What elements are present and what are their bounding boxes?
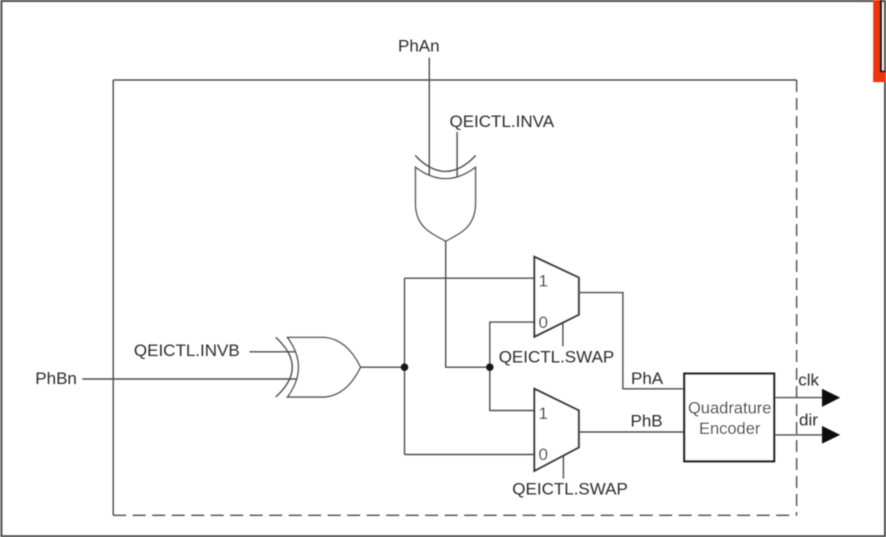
xor gate U1 (vertical, PhAn) body [416, 167, 476, 241]
arrowhead clk [822, 389, 840, 407]
junction node A dot [486, 363, 494, 371]
svg-text:Quadrature: Quadrature [688, 399, 771, 417]
black margin line next to red bar [880, 0, 886, 73]
xor gate U2 (horizontal, PhBn) extra input arc [276, 337, 293, 397]
xor gate U1 (vertical, PhAn) extra input arc [415, 156, 476, 172]
svg-text:dir: dir [799, 410, 818, 429]
svg-text:1: 1 [539, 404, 548, 423]
svg-text:QEICTL.SWAP: QEICTL.SWAP [512, 480, 628, 499]
wire U1 output down to node A elbow then right [446, 241, 490, 367]
wire node B down-branch to mux M2 input 0 [405, 454, 535, 456]
svg-text:QEICTL.INVA: QEICTL.INVA [450, 112, 555, 131]
wire QEICTL.INVB input [250, 351, 301, 353]
red change-bar annotation top-right [873, 0, 886, 82]
wire clk output [775, 397, 822, 399]
wire node A vertical branch with elbows to mux M1 input 0 and mux M2 input 1 [490, 322, 535, 410]
svg-text:PhAn: PhAn [398, 36, 440, 55]
junction node B dot [401, 363, 409, 371]
wire PhBn input (horizontal) [82, 378, 300, 380]
dashed module boundary box [113, 80, 796, 515]
mux M1 (upper) trapezoid [534, 257, 578, 337]
svg-text:PhBn: PhBn [35, 369, 77, 388]
svg-text:1: 1 [539, 272, 548, 291]
svg-text:QEICTL.SWAP: QEICTL.SWAP [499, 347, 615, 366]
wire mux M2 output PhB [579, 431, 684, 433]
svg-text:0: 0 [539, 445, 548, 464]
svg-text:PhB: PhB [631, 412, 663, 431]
svg-text:QEICTL.INVB: QEICTL.INVB [134, 341, 240, 360]
wire mux M1 select [562, 323, 564, 346]
wire PhAn input (vertical) [428, 58, 430, 178]
svg-text:PhA: PhA [631, 369, 664, 388]
wire dir output [775, 434, 822, 436]
arrowhead dir [822, 426, 840, 444]
xor gate U2 (horizontal, PhBn) body [288, 337, 361, 397]
wire mux M1 output to PhA [579, 293, 684, 389]
wire node B vertical branch [404, 278, 406, 454]
svg-text:0: 0 [539, 313, 548, 332]
wire U2 output to node B [361, 366, 405, 368]
block U3 Quadrature Encoder [684, 374, 774, 462]
mux M2 (lower) trapezoid [534, 389, 578, 471]
svg-text:Encoder: Encoder [699, 420, 761, 438]
svg-text:clk: clk [798, 371, 819, 390]
wire node B up-branch to mux M1 input 1 [405, 277, 535, 279]
wire mux M2 select [562, 456, 564, 479]
wire QEICTL.INVA input (vertical) [456, 132, 458, 179]
